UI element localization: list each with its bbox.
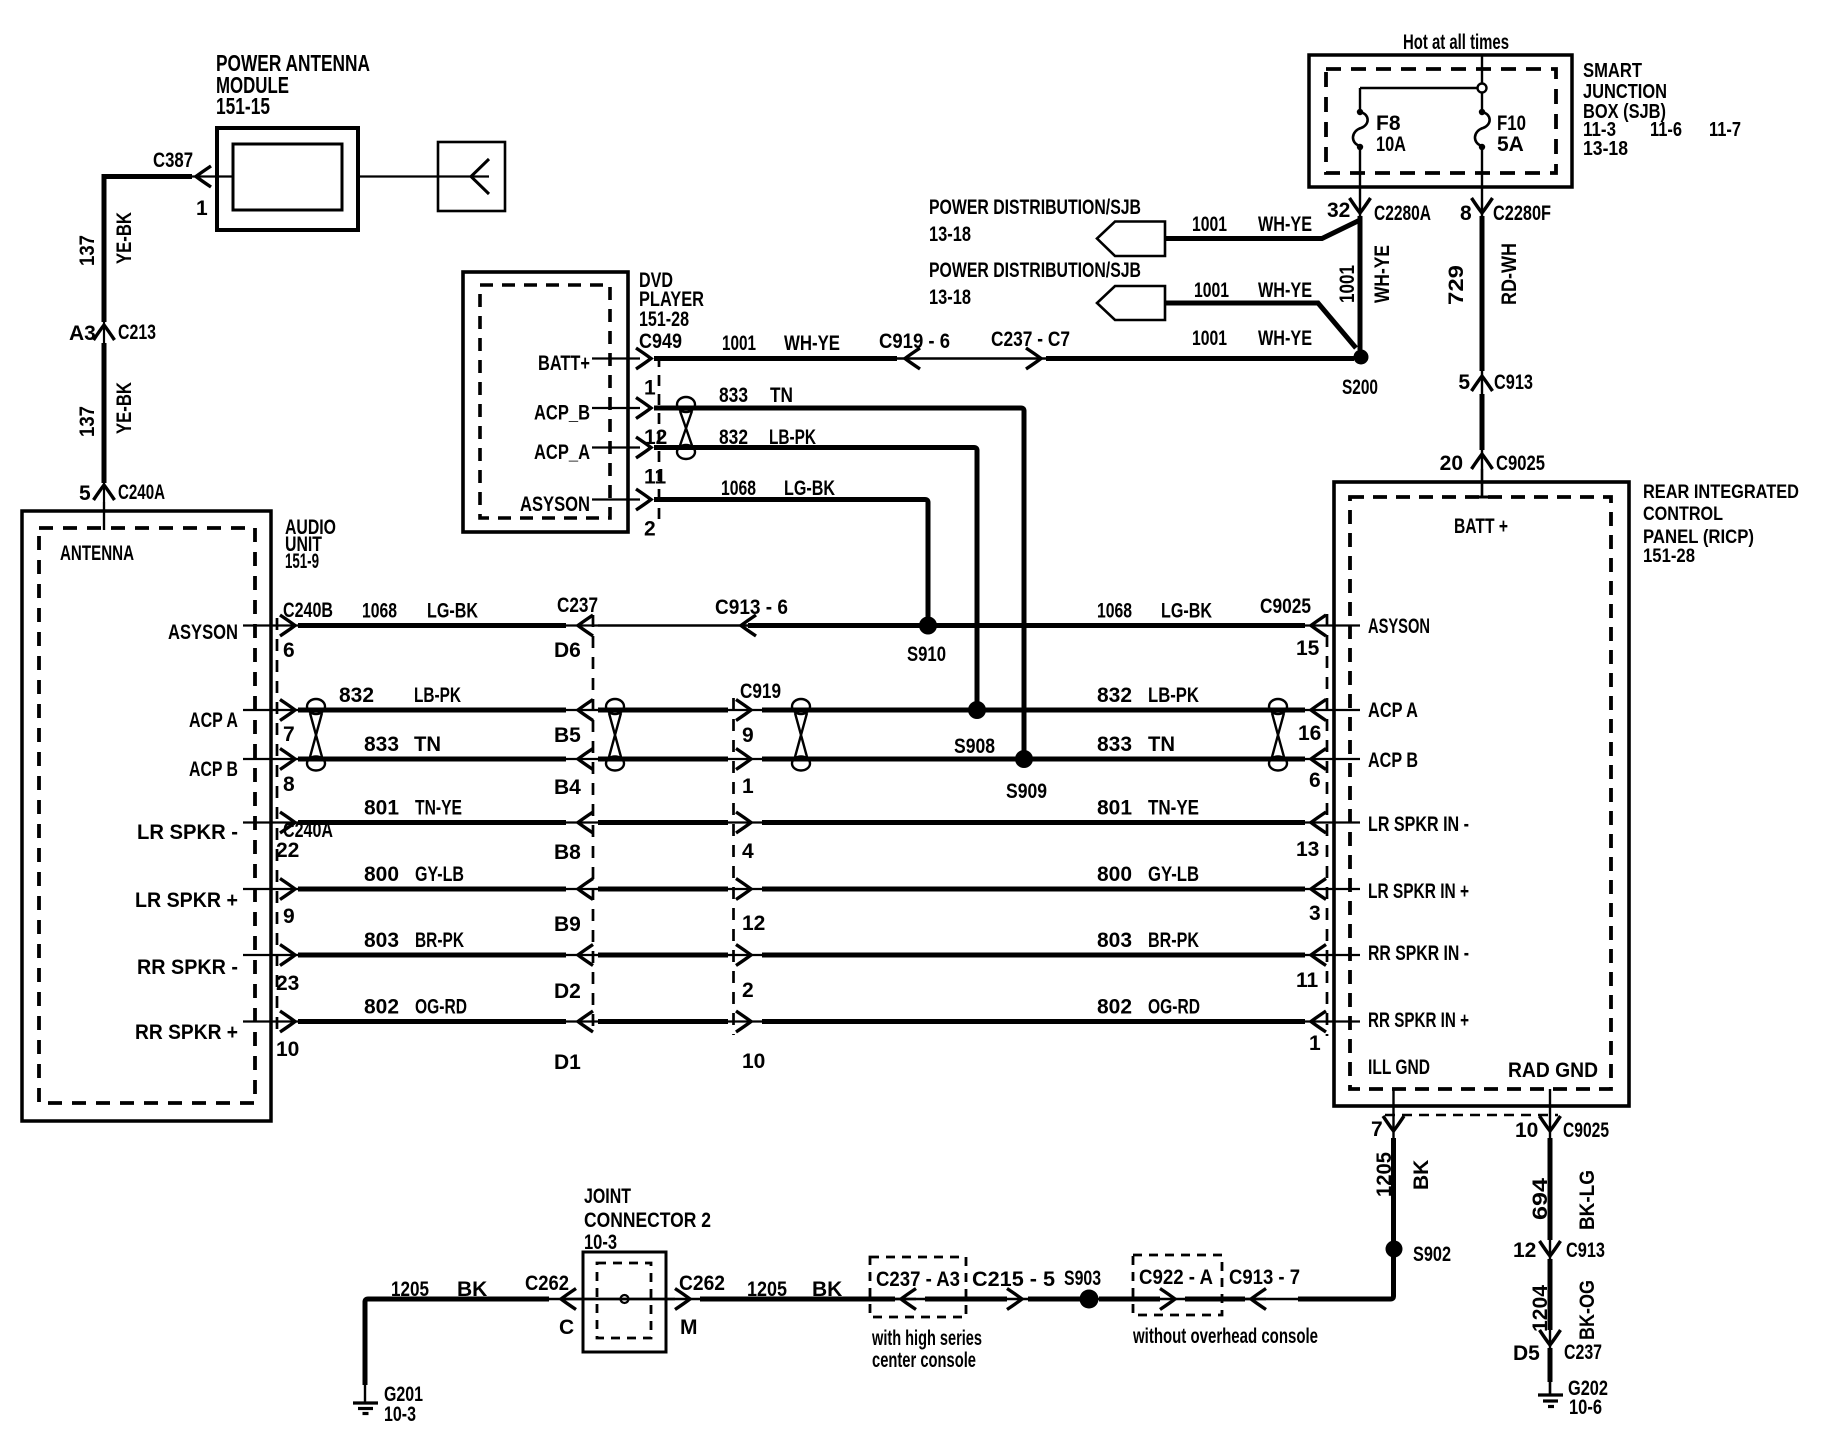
svg-text:RD-WH: RD-WH — [1498, 243, 1521, 305]
svg-text:729: 729 — [1445, 265, 1468, 305]
svg-text:S200: S200 — [1342, 376, 1378, 399]
svg-text:ACP A: ACP A — [189, 709, 238, 732]
svg-text:Hot at all times: Hot at all times — [1403, 31, 1509, 54]
svg-text:WH-YE: WH-YE — [1371, 245, 1394, 303]
wire row 6 pin line — [243, 954, 300, 956]
svg-text:LB-PK: LB-PK — [1148, 684, 1199, 707]
wire row 6 C919 arrow — [736, 945, 751, 966]
wire row 6 thick segment right — [762, 953, 1305, 958]
svg-text:C9025: C9025 — [1260, 595, 1311, 618]
svg-text:1: 1 — [1309, 1032, 1321, 1055]
svg-text:23: 23 — [276, 972, 299, 995]
svg-text:TN: TN — [1148, 733, 1175, 756]
svg-text:S909: S909 — [1006, 780, 1047, 803]
C237-A3 arrow — [901, 1289, 916, 1310]
svg-text:7: 7 — [283, 723, 295, 746]
wire row 2 C9025 arrow — [1311, 700, 1326, 721]
row 1 C913-6 arrow — [741, 615, 756, 636]
wire row 4 C237 arrow — [578, 812, 593, 833]
svg-text:LB-PK: LB-PK — [414, 684, 461, 707]
dvd player box — [463, 272, 628, 532]
svg-text:C262: C262 — [525, 1272, 569, 1295]
svg-text:803: 803 — [364, 929, 399, 952]
wire F8 out to C2280A (thin base) — [1359, 147, 1361, 352]
svg-text:833: 833 — [1097, 733, 1132, 756]
connector C240A pin 5 — [94, 485, 115, 500]
power antenna module U-box outer — [217, 128, 358, 230]
svg-text:1001: 1001 — [1192, 327, 1227, 350]
svg-text:151-28: 151-28 — [1643, 546, 1695, 567]
svg-text:S910: S910 — [907, 643, 946, 666]
svg-text:4: 4 — [742, 840, 754, 863]
dvd BATT+ wire 1001 WH-YE — [654, 356, 897, 361]
twisted pair symbol rows2-3 after C919 — [792, 699, 810, 771]
svg-text:800: 800 — [364, 863, 399, 886]
svg-text:15: 15 — [1296, 637, 1320, 660]
wire row 3 C9025 arrow — [1311, 749, 1326, 770]
svg-text:TN: TN — [770, 384, 793, 407]
svg-text:1001: 1001 — [722, 332, 756, 355]
svg-text:C215 - 5: C215 - 5 — [972, 1268, 1055, 1291]
svg-text:8: 8 — [283, 773, 295, 796]
svg-text:ACP A: ACP A — [1368, 699, 1418, 722]
svg-text:9: 9 — [283, 905, 295, 928]
connector C9025 dashed line — [1326, 614, 1329, 1036]
svg-text:ACP B: ACP B — [1368, 749, 1418, 772]
svg-text:C240A: C240A — [118, 481, 165, 504]
wire row 4 thick segment right — [762, 820, 1305, 825]
audio unit box — [22, 511, 271, 1121]
wire row 3 thick segment left — [298, 757, 566, 762]
svg-text:7: 7 — [1371, 1118, 1383, 1141]
svg-text:832: 832 — [339, 684, 374, 707]
C919-6 arrow on BATT+ wire — [905, 348, 920, 369]
svg-text:OG-RD: OG-RD — [1148, 996, 1200, 1019]
svg-text:BATT +: BATT + — [1454, 515, 1508, 538]
svg-text:13: 13 — [1296, 838, 1319, 861]
wire 694 BK-LG — [1548, 1138, 1553, 1240]
svg-text:YE-BK: YE-BK — [113, 382, 136, 434]
svg-text:151-15: 151-15 — [216, 93, 270, 119]
connector C2280A pin 32 arrow — [1350, 198, 1371, 213]
svg-text:LG-BK: LG-BK — [1161, 600, 1212, 623]
svg-text:1: 1 — [644, 377, 656, 400]
smart junction box — [1309, 55, 1572, 187]
wire row 3 C919 arrow — [736, 749, 751, 770]
C922-A arrow — [1160, 1289, 1175, 1310]
wire row 2 C240B arrow — [280, 700, 295, 721]
svg-text:C2280F: C2280F — [1493, 202, 1551, 225]
svg-text:800: 800 — [1097, 863, 1132, 886]
svg-text:2: 2 — [742, 979, 754, 1002]
svg-text:137: 137 — [76, 235, 99, 266]
wire row 7 thick segment right — [762, 1019, 1305, 1024]
wire row 1 thick segment left — [298, 623, 566, 628]
svg-text:C: C — [559, 1316, 574, 1339]
svg-text:M: M — [680, 1316, 698, 1339]
wire row 4 pin line — [243, 821, 300, 823]
wire 1001 WH-YE from PD1 — [1165, 220, 1360, 239]
wire row 1 pin line — [243, 624, 300, 626]
wire row 2 thick segment left — [298, 708, 566, 713]
svg-text:803: 803 — [1097, 929, 1132, 952]
svg-text:C237: C237 — [1564, 1341, 1602, 1364]
svg-text:1068: 1068 — [1097, 600, 1132, 623]
connector C9025 pin 10 arrow — [1540, 1116, 1561, 1131]
svg-text:B8: B8 — [554, 841, 581, 864]
svg-text:137: 137 — [76, 406, 99, 437]
svg-text:1205: 1205 — [1373, 1152, 1396, 1197]
svg-text:5: 5 — [1458, 371, 1470, 394]
wire YE-BK 137 lower — [102, 343, 107, 483]
svg-text:C913 - 7: C913 - 7 — [1229, 1266, 1300, 1289]
svg-text:CONTROL: CONTROL — [1643, 504, 1723, 525]
svg-text:ASYSON: ASYSON — [1368, 615, 1430, 638]
wire YE-BK 137 horizontal to C387 — [104, 177, 192, 323]
svg-text:C237 - C7: C237 - C7 — [991, 328, 1070, 351]
svg-text:JUNCTION: JUNCTION — [1583, 81, 1667, 103]
connector C9025 pin 7 arrow — [1383, 1116, 1404, 1131]
wire row 3 C240B arrow — [280, 749, 295, 770]
svg-text:C240B: C240B — [283, 599, 333, 622]
svg-text:13-18: 13-18 — [1583, 138, 1628, 160]
wire row 5 pin line — [243, 888, 300, 890]
ground G201 — [364, 1385, 366, 1403]
wire row 4 C240B arrow — [280, 812, 295, 833]
svg-text:6: 6 — [1309, 769, 1321, 792]
connector C387 arrow pin 1 — [196, 166, 211, 187]
svg-text:1001: 1001 — [1194, 279, 1229, 302]
svg-text:POWER DISTRIBUTION/SJB: POWER DISTRIBUTION/SJB — [929, 196, 1141, 219]
svg-text:LG-BK: LG-BK — [784, 477, 835, 500]
svg-text:1204: 1204 — [1529, 1285, 1552, 1332]
wire row 6 thick mid segment — [598, 953, 728, 958]
dvd twisted pair symbol — [677, 397, 695, 459]
svg-text:C919 - 6: C919 - 6 — [879, 330, 950, 353]
twisted pair symbol rows2-3 after C237 — [606, 699, 624, 771]
splice S902 — [1386, 1241, 1403, 1258]
svg-text:2: 2 — [644, 518, 656, 541]
svg-text:13-18: 13-18 — [929, 223, 971, 246]
wire row 2 thick segment right — [762, 708, 1305, 713]
wire 1205 BK left of C237-A3 — [700, 1297, 895, 1302]
svg-text:JOINT: JOINT — [584, 1185, 631, 1208]
wire row 7 C919 arrow — [736, 1011, 751, 1032]
svg-text:10: 10 — [1515, 1119, 1538, 1142]
wire 1205 BK vertical — [1298, 1138, 1394, 1299]
svg-text:C237: C237 — [557, 594, 598, 617]
svg-text:SMART: SMART — [1583, 60, 1642, 82]
svg-text:832: 832 — [719, 426, 748, 449]
joint connector box — [583, 1252, 666, 1352]
svg-text:WH-YE: WH-YE — [1258, 213, 1312, 236]
svg-text:1: 1 — [196, 197, 208, 220]
svg-text:1205: 1205 — [391, 1278, 429, 1301]
svg-text:with high series: with high series — [871, 1327, 982, 1350]
svg-text:C387: C387 — [153, 149, 193, 172]
svg-text:F10: F10 — [1497, 112, 1526, 135]
svg-text:13-18: 13-18 — [929, 286, 971, 309]
svg-text:C9025: C9025 — [1496, 452, 1545, 475]
svg-text:BR-PK: BR-PK — [1148, 929, 1199, 952]
row 1 thick segment right — [748, 623, 1305, 628]
svg-text:TN-YE: TN-YE — [1148, 797, 1199, 820]
svg-text:10-3: 10-3 — [384, 1403, 416, 1426]
svg-text:10-6: 10-6 — [1569, 1396, 1602, 1419]
svg-text:C213: C213 — [118, 321, 156, 344]
joint connector center circle — [621, 1295, 629, 1303]
svg-text:11-6: 11-6 — [1650, 119, 1682, 141]
svg-text:RR SPKR IN -: RR SPKR IN - — [1368, 942, 1469, 965]
svg-text:WH-YE: WH-YE — [1258, 327, 1312, 350]
svg-text:LG-BK: LG-BK — [427, 600, 478, 623]
splice S909 — [1015, 750, 1033, 768]
RICP dashed box — [1350, 497, 1611, 1089]
svg-text:ACP B: ACP B — [189, 758, 238, 781]
wire to G202 — [1548, 1348, 1553, 1382]
svg-text:1068: 1068 — [362, 600, 397, 623]
svg-text:1: 1 — [742, 775, 754, 798]
svg-text:POWER DISTRIBUTION/SJB: POWER DISTRIBUTION/SJB — [929, 259, 1141, 282]
svg-text:11: 11 — [644, 466, 667, 489]
sjb dashed box — [1326, 69, 1556, 173]
svg-text:C919: C919 — [740, 680, 781, 703]
wire row 4 thick mid segment — [598, 820, 728, 825]
svg-text:C9025: C9025 — [1563, 1119, 1609, 1142]
svg-text:20: 20 — [1440, 452, 1463, 475]
svg-text:ASYSON: ASYSON — [168, 621, 238, 644]
svg-text:9: 9 — [742, 724, 754, 747]
wire row 6 C9025 arrow — [1311, 945, 1326, 966]
svg-text:BR-PK: BR-PK — [415, 929, 464, 952]
svg-text:ACP_B: ACP_B — [534, 402, 590, 425]
svg-text:8: 8 — [1460, 202, 1472, 225]
svg-text:151-28: 151-28 — [639, 308, 689, 331]
wire row 5 thick segment left — [298, 887, 566, 892]
wire 1001 WH-YE vertical to S200 — [1358, 216, 1363, 350]
svg-text:center console: center console — [872, 1349, 976, 1372]
wire row 6 C237 arrow — [578, 945, 593, 966]
svg-text:LR SPKR IN +: LR SPKR IN + — [1368, 880, 1469, 903]
svg-text:ASYSON: ASYSON — [520, 493, 590, 516]
connector C913 pin 5 arrow — [1472, 376, 1493, 391]
C237-A3 dashed box — [870, 1257, 966, 1317]
svg-text:3: 3 — [1309, 902, 1321, 925]
svg-text:11-7: 11-7 — [1709, 119, 1741, 141]
svg-text:BK: BK — [812, 1278, 842, 1301]
svg-text:A3: A3 — [69, 322, 96, 345]
svg-text:F8: F8 — [1376, 112, 1401, 135]
svg-text:C262: C262 — [679, 1272, 725, 1295]
RAD GND wire exits RICP (thin base) — [1549, 1089, 1551, 1395]
antenna dashed box — [39, 528, 255, 1103]
svg-text:ANTENNA: ANTENNA — [60, 542, 134, 565]
wire row 4 C919 arrow — [736, 812, 751, 833]
svg-text:ACP_A: ACP_A — [534, 441, 590, 464]
connector C9025 pin 20 arrow — [1472, 454, 1493, 469]
svg-text:694: 694 — [1529, 1178, 1552, 1220]
svg-text:BATT+: BATT+ — [538, 352, 590, 375]
svg-text:833: 833 — [364, 733, 399, 756]
svg-text:802: 802 — [364, 996, 399, 1019]
splice S903 — [1080, 1290, 1099, 1309]
C922-A dashed box — [1133, 1255, 1222, 1315]
power distribution pentagon 1 — [1097, 222, 1165, 257]
svg-text:12: 12 — [742, 912, 765, 935]
dvd connector C949 dashed line — [658, 356, 661, 525]
ILL GND wire exits RICP (thin base) — [1392, 1089, 1394, 1296]
sjb internal feed line — [1481, 55, 1483, 84]
wire row 5 C9025 arrow — [1311, 879, 1326, 900]
svg-text:C913 - 6: C913 - 6 — [715, 596, 788, 619]
dvd ACP_B wire 833 TN to S909 — [654, 408, 1024, 759]
svg-text:RAD GND: RAD GND — [1508, 1059, 1598, 1082]
svg-text:C913: C913 — [1494, 371, 1533, 394]
svg-text:5A: 5A — [1497, 133, 1524, 156]
wire row 2 pin line — [243, 709, 300, 711]
splice S200 — [1354, 350, 1369, 365]
svg-text:16: 16 — [1298, 722, 1321, 745]
svg-text:833: 833 — [719, 384, 748, 407]
antenna symbol box — [438, 142, 505, 211]
svg-text:151-9: 151-9 — [285, 550, 319, 573]
C262 arrow C side — [561, 1289, 576, 1310]
wire row 5 C919 arrow — [736, 879, 751, 900]
C9025 connector dashed line bottom — [1385, 1114, 1558, 1116]
svg-text:BK-OG: BK-OG — [1576, 1280, 1599, 1340]
wire row 5 thick segment right — [762, 887, 1305, 892]
svg-text:D6: D6 — [554, 639, 581, 662]
wire row 1 C237 arrow — [578, 615, 593, 636]
svg-text:WH-YE: WH-YE — [1258, 279, 1312, 302]
svg-text:LR SPKR IN -: LR SPKR IN - — [1368, 813, 1469, 836]
wire F10 out to C2280F (thin base) — [1481, 147, 1483, 497]
svg-text:C913: C913 — [1566, 1239, 1605, 1262]
svg-text:YE-BK: YE-BK — [113, 212, 136, 264]
wire through joint connector — [561, 1298, 675, 1300]
svg-text:BK: BK — [1410, 1160, 1433, 1190]
svg-text:32: 32 — [1327, 199, 1350, 222]
wire row 7 C237 arrow — [578, 1011, 593, 1032]
wire row 7 thick segment left — [298, 1019, 566, 1024]
svg-text:D5: D5 — [1513, 1342, 1540, 1365]
wire into antenna box — [103, 502, 105, 530]
wire 1205 BK to G201 — [365, 1299, 549, 1385]
power distribution pentagon 2 — [1097, 286, 1165, 320]
svg-text:11: 11 — [1296, 969, 1319, 992]
svg-text:LR SPKR +: LR SPKR + — [135, 889, 238, 912]
C237-C7 arrow on BATT+ wire — [1026, 348, 1041, 369]
row 1 thin segment to C913-6 — [598, 624, 748, 626]
svg-text:B4: B4 — [554, 776, 581, 799]
RICP box — [1334, 482, 1629, 1106]
wire 1204 BK-OG — [1548, 1259, 1553, 1330]
svg-text:12: 12 — [1513, 1239, 1536, 1262]
wire row 3 C237 arrow — [578, 749, 593, 770]
connector C240B dashed line — [276, 618, 279, 1030]
svg-text:5: 5 — [79, 482, 91, 505]
svg-text:10: 10 — [276, 1038, 299, 1061]
wire row 7 C9025 arrow — [1311, 1011, 1326, 1032]
svg-text:S908: S908 — [954, 735, 995, 758]
svg-text:ILL GND: ILL GND — [1368, 1056, 1430, 1079]
connector C237 pin D5 arrow — [1540, 1330, 1561, 1345]
fuse F10 5A — [1479, 109, 1485, 115]
left chain thin base line — [103, 177, 105, 531]
connector C237 dashed line — [592, 615, 595, 1035]
svg-text:C2280A: C2280A — [1374, 202, 1431, 225]
antenna symbol — [358, 175, 489, 177]
svg-text:832: 832 — [1097, 684, 1132, 707]
wire through C922-A — [1185, 1298, 1266, 1300]
svg-text:B5: B5 — [554, 724, 581, 747]
svg-text:801: 801 — [364, 797, 399, 820]
svg-text:10A: 10A — [1376, 133, 1406, 156]
svg-text:TN-YE: TN-YE — [415, 797, 462, 820]
svg-text:RR SPKR IN +: RR SPKR IN + — [1368, 1009, 1469, 1032]
wire row 3 pin line — [243, 758, 300, 760]
wire row 2 thick mid segment — [598, 708, 728, 713]
svg-text:LB-PK: LB-PK — [769, 426, 816, 449]
svg-text:S903: S903 — [1064, 1267, 1101, 1290]
svg-text:802: 802 — [1097, 996, 1132, 1019]
svg-text:D2: D2 — [554, 980, 581, 1003]
svg-text:6: 6 — [283, 639, 295, 662]
wire row 2 C919 arrow — [736, 700, 751, 721]
svg-text:C922 - A: C922 - A — [1139, 1266, 1213, 1289]
wire 1001 WH-YE from PD2 to S200 — [1165, 303, 1356, 348]
svg-text:RR SPKR -: RR SPKR - — [137, 956, 238, 979]
fuse F8 10A — [1357, 109, 1363, 115]
svg-text:C237 - A3: C237 - A3 — [876, 1268, 960, 1291]
svg-text:REAR INTEGRATED: REAR INTEGRATED — [1643, 482, 1799, 503]
svg-text:WH-YE: WH-YE — [784, 332, 840, 355]
svg-text:GY-LB: GY-LB — [1148, 863, 1199, 886]
svg-text:GY-LB: GY-LB — [415, 863, 464, 886]
svg-text:S902: S902 — [1413, 1243, 1451, 1266]
bottom ground run thin base line — [365, 1298, 1393, 1300]
wire row 3 thick mid segment — [598, 757, 728, 762]
twisted pair symbol rows2-3 after C240B — [307, 699, 325, 771]
svg-text:1068: 1068 — [721, 477, 756, 500]
connector C919 dashed line — [732, 698, 735, 1035]
svg-text:PANEL (RICP): PANEL (RICP) — [1643, 527, 1754, 548]
svg-text:TN: TN — [414, 733, 441, 756]
dvd ACP_A wire 832 LB-PK to S908 — [654, 448, 977, 711]
svg-text:1001: 1001 — [1336, 265, 1359, 303]
svg-text:BK-LG: BK-LG — [1576, 1170, 1599, 1230]
connector C913 pin 12 arrow — [1540, 1241, 1561, 1256]
connector C2280F pin 8 arrow — [1472, 198, 1493, 213]
wire row 3 thick segment right — [762, 757, 1305, 762]
svg-text:BK: BK — [457, 1278, 487, 1301]
wire 729 RD-WH vertical — [1480, 216, 1485, 371]
svg-text:OG-RD: OG-RD — [415, 996, 467, 1019]
C262 arrow M side — [675, 1289, 690, 1310]
dvd player dashed box — [480, 285, 610, 518]
power antenna module inner box — [233, 144, 342, 210]
wire to C215-5 — [1028, 1297, 1080, 1302]
wire row 5 thick mid segment — [598, 887, 728, 892]
splice S910 — [919, 617, 937, 635]
wire row 2 C237 arrow — [578, 700, 593, 721]
wire row 6 C240B arrow — [280, 945, 295, 966]
connector C913-7 arrow — [1251, 1289, 1266, 1310]
svg-text:B9: B9 — [554, 913, 581, 936]
wire row 4 thick segment left — [298, 820, 566, 825]
splice S908 — [968, 701, 986, 719]
svg-text:1205: 1205 — [747, 1278, 787, 1301]
